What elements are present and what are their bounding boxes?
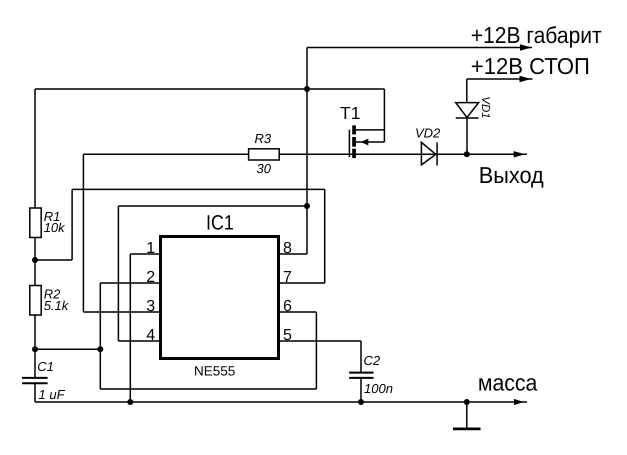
svg-text:1: 1	[146, 240, 155, 257]
svg-text:7: 7	[283, 269, 292, 286]
svg-text:R3: R3	[255, 131, 272, 146]
svg-text:VD1: VD1	[479, 96, 491, 118]
svg-text:4: 4	[146, 327, 155, 344]
svg-text:30: 30	[257, 161, 272, 176]
svg-text:C2: C2	[364, 353, 381, 368]
svg-text:6: 6	[283, 298, 292, 315]
svg-text:+12В СТОП: +12В СТОП	[471, 53, 590, 79]
svg-text:Выход: Выход	[479, 162, 545, 188]
svg-text:NE555: NE555	[194, 364, 235, 379]
svg-text:2: 2	[146, 269, 155, 286]
svg-text:+12В габарит: +12В габарит	[471, 22, 602, 48]
svg-text:VD2: VD2	[415, 126, 441, 141]
svg-text:1 uF: 1 uF	[39, 387, 66, 402]
svg-text:масса: масса	[478, 370, 538, 396]
svg-text:5: 5	[283, 327, 292, 344]
svg-text:C1: C1	[37, 359, 54, 374]
svg-text:3: 3	[146, 298, 155, 315]
svg-text:IC1: IC1	[206, 212, 234, 235]
svg-text:8: 8	[283, 240, 292, 257]
svg-text:5.1k: 5.1k	[44, 298, 70, 313]
svg-text:100n: 100n	[364, 381, 393, 396]
svg-text:10k: 10k	[44, 220, 66, 235]
svg-text:T1: T1	[340, 103, 360, 123]
